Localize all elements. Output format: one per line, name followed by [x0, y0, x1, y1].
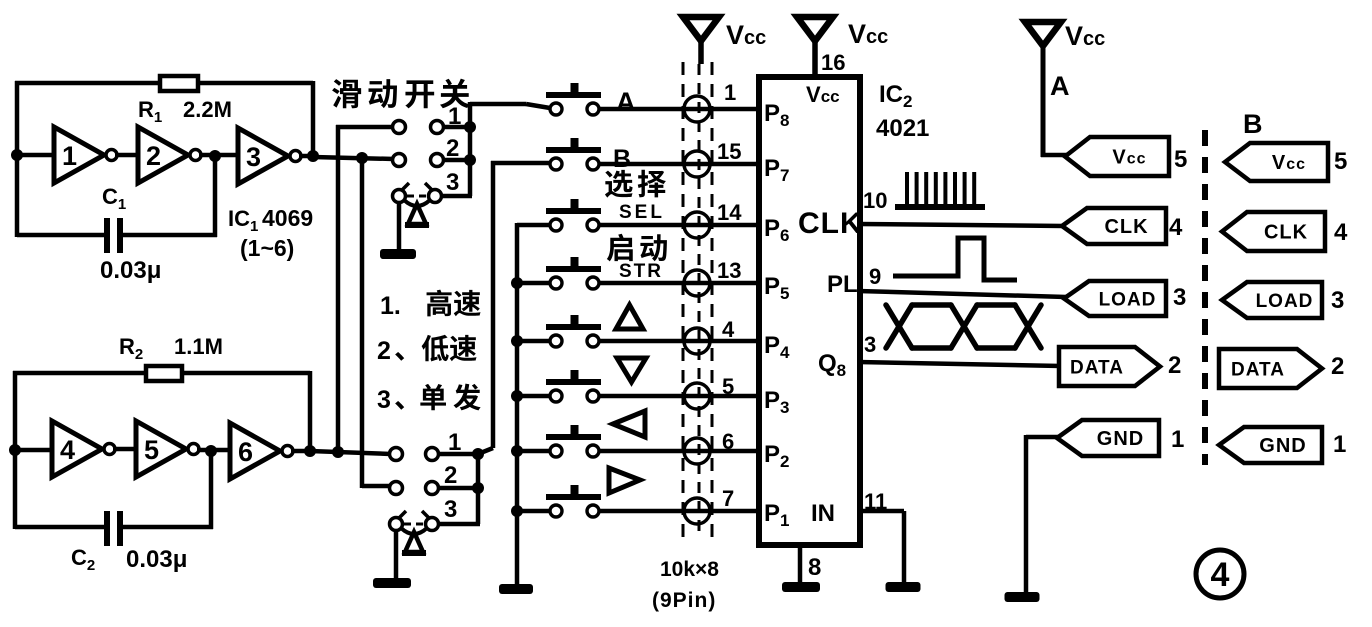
svg-text:3: 3 — [1173, 284, 1186, 311]
svg-text:GND: GND — [1097, 428, 1144, 450]
node dots oscillator 2 — [9, 444, 316, 457]
label C2 0.03u — [71, 545, 187, 574]
SW2 common wires — [438, 161, 493, 524]
ground under GND A — [1005, 592, 1040, 602]
svg-text:1: 1 — [62, 141, 77, 171]
svg-text:5: 5 — [722, 374, 734, 399]
svg-text:Vcc: Vcc — [1112, 147, 1146, 169]
label R1 2.2M — [138, 97, 232, 126]
svg-text:LOAD: LOAD — [1256, 291, 1314, 312]
svg-text:2.2M: 2.2M — [183, 97, 232, 122]
capacitor C1 — [104, 218, 123, 253]
svg-text:4: 4 — [60, 435, 75, 465]
wire button DOWN to IC2 pin — [600, 394, 759, 399]
svg-text:A: A — [616, 87, 636, 117]
svg-text:2: 2 — [146, 141, 161, 171]
vertical wire osc1 output to switch2-pos2 — [362, 157, 392, 488]
svg-text:DATA: DATA — [1231, 360, 1285, 381]
svg-text:1.: 1. — [380, 292, 401, 320]
svg-text:3: 3 — [377, 386, 391, 414]
inverter 4 — [52, 421, 115, 477]
svg-text:CLK: CLK — [1264, 222, 1308, 244]
label C1 0.03u — [100, 184, 161, 284]
pushbutton RIGHT — [546, 485, 601, 517]
wire button LEFT to IC2 pin — [600, 449, 759, 454]
resistor network connection circles — [684, 96, 710, 524]
figure number 4 circled — [1196, 550, 1244, 598]
svg-text:5: 5 — [1174, 146, 1187, 173]
DATA output wire pin 3 Q8 — [858, 332, 1061, 366]
wire inverter1 to inverter2 — [115, 153, 138, 158]
connector A Vcc — [1065, 137, 1169, 176]
svg-text:DATA: DATA — [1070, 358, 1124, 379]
capacitor C2 — [104, 511, 123, 546]
ground under SW2 — [373, 578, 411, 588]
svg-text:LOAD: LOAD — [1099, 290, 1157, 311]
inverter 5 — [136, 421, 199, 477]
Vcc antenna section A — [1025, 22, 1068, 157]
connector A GND wire to ground — [1026, 435, 1062, 592]
svg-text:13: 13 — [717, 258, 741, 283]
svg-text:6: 6 — [722, 429, 734, 454]
connector A CLK — [1062, 208, 1166, 244]
pushbutton B — [546, 138, 601, 170]
ground under pin 8 — [782, 582, 820, 592]
connector B CLK — [1222, 212, 1325, 251]
pushbutton A — [546, 83, 601, 115]
wire inverter6 output — [291, 449, 316, 454]
SW1 wiper — [402, 183, 432, 228]
connector A LOAD — [1064, 281, 1166, 316]
pushbutton STR — [546, 257, 601, 289]
svg-text:4: 4 — [1169, 214, 1183, 241]
wire inverter5 to inverter6 — [197, 448, 230, 453]
svg-text:B: B — [1243, 109, 1263, 139]
connector B DATA — [1219, 349, 1322, 388]
svg-text:14: 14 — [717, 200, 742, 225]
label 10kx8 (9Pin) — [652, 558, 719, 612]
svg-text:4069: 4069 — [262, 205, 313, 231]
inverter 1 — [54, 127, 117, 183]
svg-text:1: 1 — [1171, 426, 1184, 453]
IC2 left pin number labels — [717, 80, 742, 511]
svg-text:4: 4 — [1211, 556, 1230, 594]
junction dot on osc1 output — [356, 152, 368, 164]
wire osc1 output to slide switch 1 position 2 — [313, 157, 394, 159]
IC2 pin 11 wire to ground — [860, 489, 904, 582]
svg-text:1: 1 — [1333, 431, 1346, 458]
pushbutton LEFT — [546, 425, 601, 457]
svg-text:(9Pin): (9Pin) — [652, 589, 716, 612]
svg-text:STR: STR — [619, 261, 663, 282]
wire inverter3 output — [299, 154, 316, 159]
svg-text:CLK: CLK — [798, 207, 863, 240]
label arrow down — [617, 358, 646, 382]
svg-text:0.03μ: 0.03μ — [126, 546, 187, 573]
clock pulse waveform — [895, 172, 985, 210]
wire inverter2 to inverter3 — [199, 153, 238, 158]
load pulse waveform — [893, 238, 1017, 280]
resistor network cable dashed lines — [683, 62, 712, 540]
svg-text:2: 2 — [444, 462, 457, 489]
label xuanze SEL — [605, 170, 666, 223]
connector A GND — [1057, 420, 1159, 456]
SW1 position labels 1 2 3 — [446, 103, 461, 196]
svg-text:IN: IN — [811, 500, 835, 527]
wire inverter4 to inverter5 — [113, 447, 136, 452]
node dots oscillator 1 — [11, 149, 319, 162]
oscillator 2 feedback loop wires — [13, 371, 310, 529]
svg-text:5: 5 — [1334, 148, 1347, 175]
pushbutton SEL — [546, 199, 601, 231]
svg-text:PL: PL — [827, 271, 858, 298]
svg-text:4: 4 — [722, 317, 735, 342]
label arrow right — [609, 468, 640, 493]
svg-text:4021: 4021 — [876, 115, 929, 142]
ground under button bus — [499, 584, 533, 594]
svg-text:0.03μ: 0.03μ — [100, 257, 161, 284]
mode list text 1.gaosu 2.disu 3.danfa — [377, 290, 481, 414]
svg-text:A: A — [1050, 71, 1070, 101]
svg-text:15: 15 — [717, 139, 741, 164]
svg-text:SEL: SEL — [619, 202, 665, 223]
svg-text:GND: GND — [1259, 435, 1306, 457]
label arrow up — [616, 305, 643, 329]
inverter 6 — [230, 423, 293, 479]
CLK output wire pin 10 — [858, 188, 1064, 226]
junction dot on osc2 output — [332, 446, 344, 458]
SW1 wiper ground wire — [397, 204, 402, 251]
svg-text:10k×8: 10k×8 — [660, 558, 719, 581]
svg-text:(1~6): (1~6) — [240, 235, 294, 261]
bus junction dots — [511, 277, 523, 517]
wire button RIGHT to IC2 pin — [600, 509, 759, 514]
pushbutton DOWN — [546, 370, 601, 402]
wire button UP to IC2 pin — [600, 339, 759, 344]
SW2 position labels 1 2 3 — [444, 429, 461, 523]
label IC1 4069 — [228, 205, 313, 261]
svg-text:Vcc: Vcc — [1272, 152, 1306, 174]
label qidong STR — [607, 234, 667, 282]
svg-text:2: 2 — [1168, 352, 1181, 379]
ground under pin 11 — [886, 582, 921, 592]
dashed separator line — [1202, 130, 1208, 465]
slide switch SW2 contacts — [390, 448, 439, 531]
svg-text:3: 3 — [246, 142, 261, 172]
svg-text:11: 11 — [864, 489, 887, 514]
vertical wire switch1-pos1 to osc2 output — [336, 125, 394, 454]
SW2 wiper — [399, 511, 429, 556]
svg-text:3: 3 — [444, 496, 457, 523]
svg-text:4: 4 — [1334, 219, 1348, 246]
connector A DATA — [1059, 347, 1160, 386]
ground under SW1 — [380, 249, 416, 259]
connector B LOAD — [1222, 282, 1322, 318]
svg-text:7: 7 — [722, 486, 734, 511]
button common bus — [517, 223, 550, 584]
svg-text:9: 9 — [869, 264, 881, 289]
SW2 wiper ground wire — [394, 532, 399, 580]
wire button B to IC2 pin — [600, 162, 759, 167]
wire button STR to IC2 pin — [600, 281, 759, 286]
connector B Vcc — [1225, 143, 1328, 181]
svg-text:1.1M: 1.1M — [174, 334, 223, 359]
oscillator 1 feedback loop wires — [15, 81, 313, 237]
SW2 junction dots — [472, 448, 484, 494]
inverter 2 — [138, 127, 201, 183]
svg-text:3: 3 — [864, 332, 876, 357]
svg-text:1: 1 — [724, 80, 736, 105]
resistor R1 — [160, 76, 198, 91]
IC2 inside labels — [764, 82, 863, 530]
svg-text:B: B — [613, 145, 631, 173]
label IC2 4021 — [876, 81, 929, 142]
wire button A to IC2 pin — [600, 107, 759, 112]
PL load wire pin 9 — [858, 264, 1066, 297]
inverter 3 — [238, 128, 301, 184]
label slide switch (hua dong kai guan) — [332, 79, 470, 109]
Vcc antenna over resistor network — [683, 17, 719, 64]
svg-text:5: 5 — [144, 435, 159, 465]
SW1 junction dots — [464, 121, 476, 166]
wire SW2 common to button B — [491, 161, 550, 166]
label R2 1.1M — [119, 334, 223, 363]
svg-text:3: 3 — [446, 169, 459, 196]
wire osc2 output to slide switch 2 position 1 — [310, 451, 391, 454]
data stream waveform — [886, 305, 1041, 348]
svg-text:2: 2 — [377, 337, 391, 365]
svg-text:3: 3 — [1331, 287, 1344, 314]
label arrow left — [613, 411, 645, 437]
resistor R2 — [146, 366, 182, 381]
SW1 common wires — [442, 102, 550, 196]
svg-text:CLK: CLK — [1104, 216, 1148, 238]
IC2 pin 16 stub and Vcc antenna — [797, 17, 833, 79]
IC2 pin 8 stub — [800, 545, 821, 582]
IC2 4021 body — [759, 77, 860, 545]
wire button SEL to IC2 pin — [600, 223, 759, 228]
svg-text:2: 2 — [1331, 353, 1344, 380]
svg-text:16: 16 — [821, 50, 845, 75]
connector B GND — [1219, 427, 1322, 463]
svg-text:6: 6 — [238, 437, 253, 467]
svg-text:8: 8 — [808, 554, 821, 581]
slide switch SW1 contacts — [393, 121, 444, 203]
svg-text:10: 10 — [863, 188, 887, 213]
pushbutton UP — [546, 315, 601, 347]
